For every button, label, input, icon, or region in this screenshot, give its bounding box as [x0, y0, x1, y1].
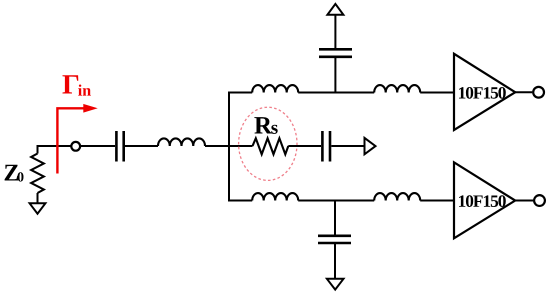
capacitor C4: [318, 235, 351, 238]
resistor Z0: [31, 154, 44, 194]
label U1 10F150: [459, 87, 506, 99]
wire C1 to L1: [125, 145, 158, 147]
wire L2 to L3: [298, 92, 374, 94]
capacitor C3: [319, 55, 352, 58]
inductor L5: [374, 193, 420, 200]
capacitor C1: [115, 131, 118, 162]
inductor L4: [252, 193, 298, 200]
wire C4 to ground: [334, 244, 336, 280]
red marker Gamma_in line: [57, 108, 84, 173]
wire Rs to C2: [288, 145, 321, 147]
wire L3 to U1: [420, 92, 454, 94]
inductor L3: [374, 85, 420, 92]
wire U1 output: [515, 91, 532, 93]
inductor L2: [252, 85, 298, 92]
red marker arrowhead: [84, 105, 96, 112]
node U1 output circle: [533, 87, 544, 98]
capacitor C2: [321, 131, 324, 162]
inductor L1: [158, 138, 205, 146]
wire C3 to supply: [334, 15, 336, 49]
label U2 10F150: [459, 195, 506, 207]
supply symbol top: [327, 4, 343, 15]
wire top branch left: [228, 92, 252, 94]
wire Z0 to ground: [37, 193, 39, 203]
wire Z0 branch vertical: [37, 146, 39, 154]
wire L4 to L5: [298, 200, 374, 202]
wire bottom branch left: [228, 200, 252, 202]
wire C2 to output arrow: [331, 145, 364, 147]
resistor Rs: [253, 138, 289, 154]
wire U2 output: [515, 200, 533, 202]
ground bottom: [327, 279, 344, 290]
label Z0: [5, 165, 19, 181]
node input circle: [71, 142, 80, 151]
buffer U2 10F150: [454, 162, 515, 238]
buffer U1 10F150: [454, 54, 515, 130]
wire L5 to U2: [420, 200, 454, 202]
highlight ellipse around Rs: [239, 107, 297, 180]
wire main input horizontal: [37, 145, 71, 147]
wire stub up to C3: [334, 58, 336, 93]
label Rs: [254, 117, 272, 133]
label Gamma_in: [63, 75, 79, 93]
wire node to C1: [80, 145, 115, 147]
node U2 output circle: [534, 195, 545, 206]
node output open triangle: [365, 138, 376, 154]
wire junction vertical: [228, 93, 230, 201]
wire L1 to Rs: [205, 145, 253, 147]
ground left: [30, 203, 46, 213]
wire stub down to C4: [334, 201, 336, 236]
